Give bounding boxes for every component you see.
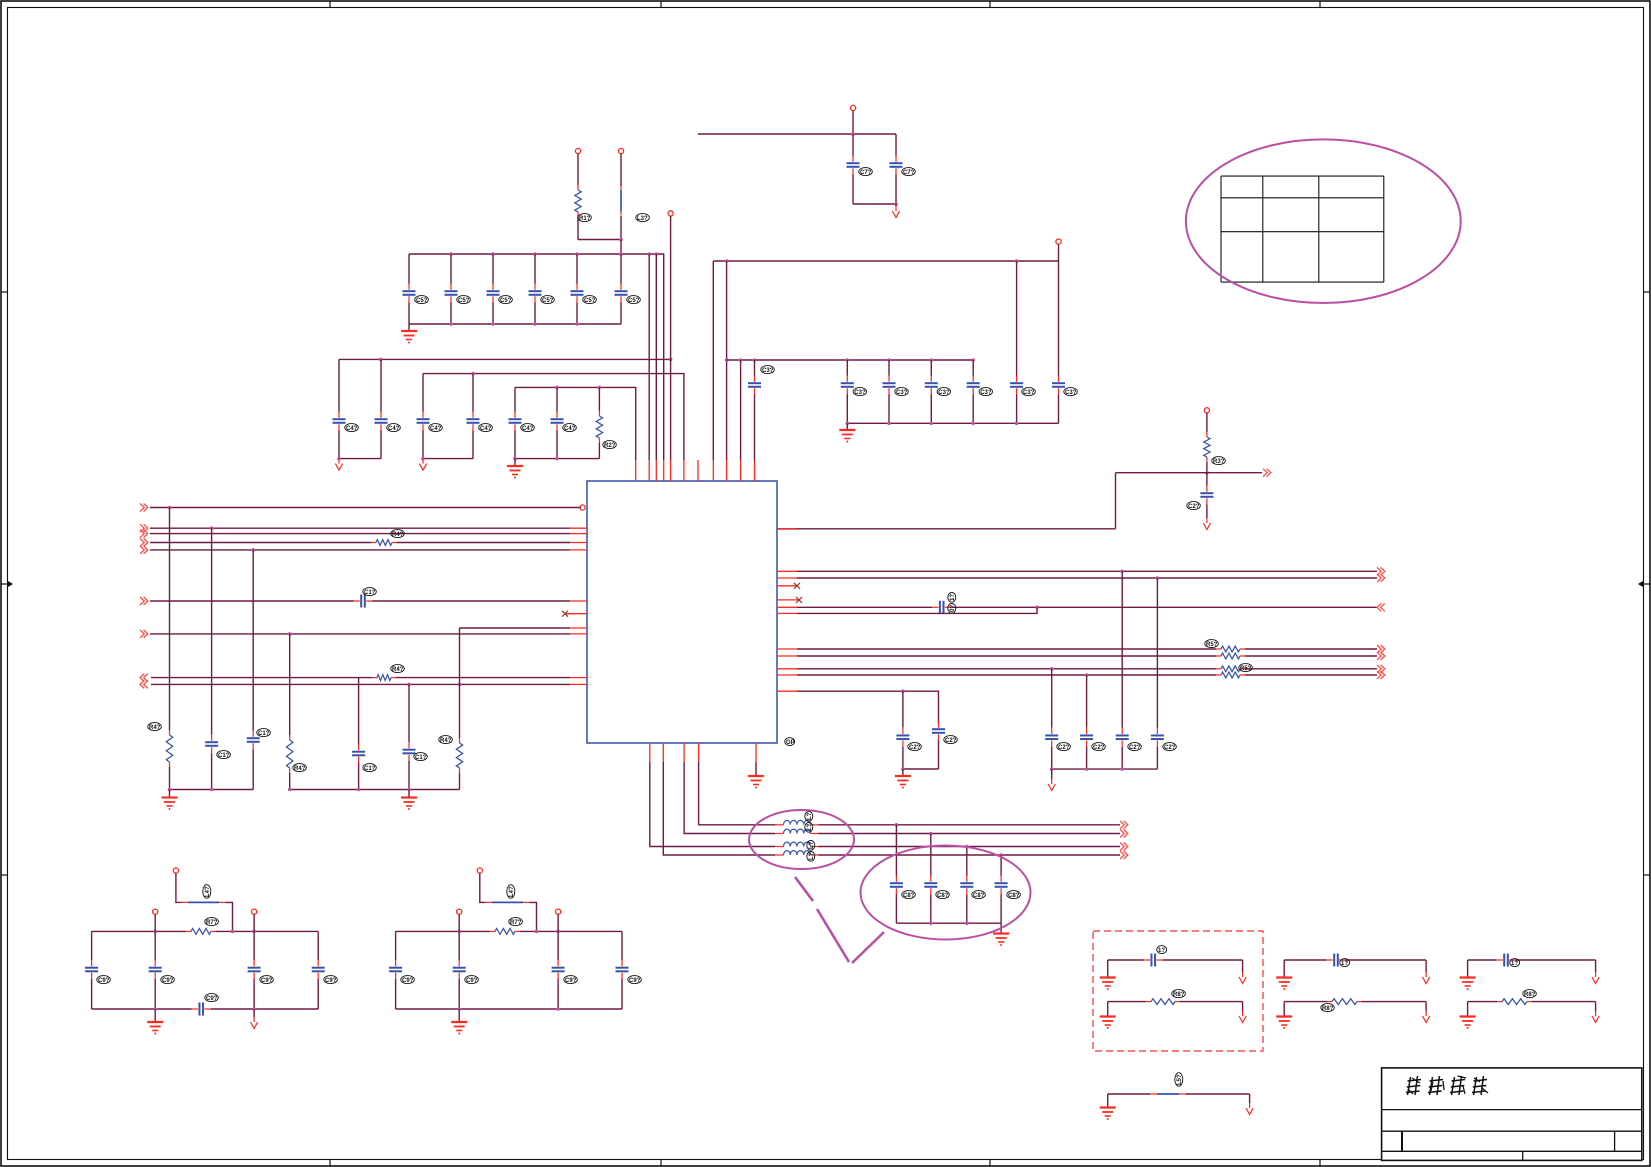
wire rail y472.7 <box>1116 472 1263 474</box>
label C14 <box>414 753 428 761</box>
label C22 <box>908 743 922 751</box>
label C102 <box>1510 959 1520 967</box>
capacitor C49 <box>333 412 346 431</box>
label C10 <box>363 588 377 596</box>
wire row 668.8a <box>797 668 1216 670</box>
ferrite bead FB4 <box>1150 1093 1186 1095</box>
svg-text:R2?: R2? <box>604 443 616 449</box>
resistor R20 <box>596 411 602 443</box>
svg-text:1?: 1? <box>950 594 956 601</box>
svg-text:C3?: C3? <box>896 390 908 396</box>
off-page arrow A-668.8 <box>1377 665 1385 673</box>
junction J-1037-607 <box>1035 606 1039 610</box>
wire lrc gnd stub2 <box>408 790 410 798</box>
wire b1 agnd stub <box>253 1009 255 1017</box>
IC left pin stubs <box>566 528 587 684</box>
label C61 <box>902 168 916 176</box>
resistor R65 <box>1216 672 1245 678</box>
wire 740 vertical <box>740 360 742 460</box>
wire g2 row1 gnd stub <box>1283 960 1285 978</box>
wire brow2 <box>684 762 775 834</box>
junctions row tap dots <box>1050 667 1089 677</box>
analog ground AG11 <box>1592 972 1599 984</box>
capacitor C80 <box>890 876 903 895</box>
label R80 <box>1172 990 1186 998</box>
capacitor C39 <box>883 376 896 395</box>
wire brow3 <box>650 762 775 847</box>
analog ground AG7 <box>1239 972 1246 984</box>
label C24 <box>1057 743 1071 751</box>
wire b2 pin3 lead b <box>557 979 559 1009</box>
resistor R82 <box>1497 999 1532 1005</box>
ground GND1 <box>401 331 417 344</box>
off-page arrow A-571 <box>1377 567 1385 575</box>
label C51 <box>457 296 471 304</box>
inductor L1 <box>775 820 819 824</box>
svg-text:C1?: C1? <box>415 755 427 761</box>
svg-text:R8?: R8? <box>1173 992 1185 998</box>
wire v902 <box>902 691 904 728</box>
junction J-1206-472 <box>1205 471 1209 475</box>
capacitor C37 <box>841 376 854 395</box>
ground GND13 <box>1276 978 1292 991</box>
wire e2v1 <box>895 825 897 876</box>
wire g1 row2 gnd stub <box>1107 1002 1109 1017</box>
ground GND9 <box>147 1022 163 1035</box>
label C101 <box>1340 959 1350 967</box>
wire rc bottom rail b <box>1052 768 1158 770</box>
wire g1 row2 agnd stub <box>1242 1002 1244 1011</box>
resistor R59 <box>1216 646 1245 652</box>
wire trb bottom rail <box>847 422 1058 424</box>
wire b1 fb corner <box>226 902 233 931</box>
junction J-169-507 <box>168 506 172 510</box>
inductor L2 <box>775 829 819 833</box>
leader line 1 <box>795 877 813 901</box>
pin P10 <box>477 868 482 873</box>
junctions railC <box>555 386 601 390</box>
wire trb gnd stub <box>846 423 848 430</box>
border centre arrow left <box>1 581 13 587</box>
wire bank2 cap557 bottom lead <box>556 431 558 459</box>
wire bt agnd stub <box>1249 1094 1251 1103</box>
label C27 <box>1163 743 1177 751</box>
label C100 <box>1157 946 1167 954</box>
wire row 607.3b <box>951 606 1377 608</box>
svg-text:R4?: R4? <box>294 766 306 772</box>
wire bank1 cap0 bottom lead <box>408 303 410 325</box>
junctions bank2 bottom <box>337 457 559 461</box>
svg-text:C1?: C1? <box>258 731 270 737</box>
label FB1 <box>636 214 650 222</box>
junctions b2 bottom dots <box>457 1007 559 1011</box>
ground GND14 <box>1276 1017 1292 1030</box>
wire brow2b <box>819 833 1121 835</box>
wire g3 row2 gnd stub <box>1467 1002 1469 1017</box>
wire rc bottom rail a <box>903 768 939 770</box>
wire v289b <box>289 773 291 790</box>
wire bank2 cap423 bottom lead <box>422 431 424 459</box>
wire b2 fb corner <box>530 902 537 931</box>
wire bank1 bottom rail <box>409 323 621 325</box>
wire row 656b <box>1245 655 1377 657</box>
svg-text:L?: L? <box>807 812 813 820</box>
svg-text:C8?: C8? <box>1008 893 1020 899</box>
wire e2v1b <box>895 895 897 924</box>
junction J-289-633 <box>288 632 292 636</box>
capacitor C27 <box>1151 728 1164 747</box>
svg-text:L3?: L3? <box>637 216 648 222</box>
capacitor C97 <box>389 960 402 979</box>
capacitor C91 <box>248 960 261 979</box>
no-connect X1 <box>562 611 568 617</box>
capacitor C23 <box>932 722 945 741</box>
wire b1 capL lead b <box>91 979 93 1009</box>
svg-text:C3?: C3? <box>762 368 774 374</box>
label C50 <box>415 296 429 304</box>
capacitor C37 <box>1052 376 1065 395</box>
wire e2 bottom rail <box>896 922 1001 924</box>
svg-text:R5?: R5? <box>1206 642 1218 648</box>
junction J-253-549 <box>251 548 255 552</box>
wire e2v3 <box>966 847 968 876</box>
wire v409 <box>408 684 410 742</box>
wire bank2 cap515 bottom lead <box>514 431 516 459</box>
wire g1 row1 b <box>1163 959 1243 961</box>
label U1 GP <box>785 738 795 746</box>
wire b2 main row <box>396 930 490 932</box>
wire v1157b <box>1156 747 1158 769</box>
label C31 <box>937 388 951 396</box>
pin P11 <box>457 909 462 914</box>
wire b2 capL lead <box>395 931 397 960</box>
label R30 <box>1212 457 1226 465</box>
wire ic gnd lead <box>755 762 757 776</box>
wire v459b <box>459 773 461 790</box>
svg-text:C3?: C3? <box>980 390 992 396</box>
label C81 <box>936 891 950 899</box>
capacitor C47 <box>551 412 564 431</box>
wire trb cap889 top lead <box>888 360 890 376</box>
wire row 628 corner <box>460 627 571 629</box>
label C21 <box>1187 502 1201 510</box>
wire b2 bottom row <box>396 1008 622 1010</box>
label R44 <box>439 736 453 744</box>
wire C61 top lead <box>895 134 897 156</box>
wire bank2 cap381 bottom lead <box>380 431 382 459</box>
svg-text:C4?: C4? <box>522 426 534 432</box>
wire bank1 cap1 top lead <box>450 254 452 284</box>
IC bottom pin stubs <box>650 743 756 762</box>
svg-text:C2?: C2? <box>1188 504 1200 510</box>
wire bus 656 vertical <box>655 254 657 460</box>
wire row 656a <box>797 655 1216 657</box>
wire v409b <box>408 761 410 790</box>
capacitor C93 <box>312 960 325 979</box>
capacitor C54 <box>571 284 584 303</box>
wire P2 lead <box>577 154 579 185</box>
wire 459 vertical <box>459 628 461 684</box>
wire b1 pin2 lead b <box>154 979 156 1009</box>
junction J-670-359 <box>669 358 673 362</box>
wire bank1 cap1 bottom lead <box>450 303 452 325</box>
wire g1 row1 a <box>1108 959 1144 961</box>
wire row 675b <box>1245 674 1377 676</box>
label R41 <box>391 665 405 673</box>
wire v211 <box>211 528 213 734</box>
wire row 542.5b <box>397 542 570 544</box>
off-page arrow A-675 <box>1377 671 1385 679</box>
wire trb cap889 bottom lead <box>888 395 890 424</box>
junctions b1 bottom dots <box>153 1007 256 1011</box>
wire bank2 cap339 top lead <box>338 359 340 411</box>
wire 621 down to bank1 <box>620 240 622 255</box>
label C13 <box>363 764 377 772</box>
wire bank2 res lead2 <box>598 443 600 459</box>
svg-text:L4?: L4? <box>509 886 515 897</box>
label R82 <box>1523 990 1537 998</box>
svg-text:C2?: C2? <box>1058 745 1070 751</box>
svg-text:C9?: C9? <box>466 978 478 984</box>
junctions bank1 bottom <box>449 322 579 326</box>
off-page arrow A-677 <box>140 674 148 682</box>
label C43 <box>479 424 493 432</box>
wire bank1 cap0 top lead <box>408 254 410 284</box>
capacitor C22 <box>896 728 909 747</box>
wire bank2 cap339 bottom lead <box>338 431 340 459</box>
wire row 528.2 <box>150 527 570 529</box>
wire v1051b <box>1051 747 1053 769</box>
wire P1 to node <box>852 111 854 134</box>
off-page arrow A-684 <box>140 680 148 688</box>
svg-text:C2?: C2? <box>1093 745 1105 751</box>
label C54 <box>583 296 597 304</box>
capacitor C81 <box>924 876 937 895</box>
label C36 <box>1022 388 1036 396</box>
label C45 <box>521 424 535 432</box>
capacitor C12 <box>247 731 260 750</box>
leader line 3 <box>852 932 884 963</box>
wire g3 row1 a <box>1468 959 1497 961</box>
wire bank2 railB <box>423 374 684 460</box>
wire C61 bottom lead <box>895 175 897 205</box>
label R81 <box>1321 1004 1335 1012</box>
label C37 <box>1064 388 1078 396</box>
svg-text:C9?: C9? <box>261 978 273 984</box>
off-page arrow A-472 <box>1263 469 1271 477</box>
capacitor C25 <box>1080 728 1093 747</box>
capacitor C60 <box>847 156 860 175</box>
wire row 633.9 <box>150 633 570 635</box>
analog ground AG10 <box>1423 1011 1430 1023</box>
label L3L4b <box>807 851 815 861</box>
label R43 <box>293 764 307 772</box>
capacitor C52 <box>487 284 500 303</box>
ground GND12 <box>1100 1017 1116 1030</box>
wire e2v3b <box>966 895 968 924</box>
leader line 2 <box>817 909 849 962</box>
label C94 <box>205 994 219 1002</box>
ferrite bead FB2 <box>181 901 226 903</box>
resistor R71 <box>490 929 520 935</box>
pin P5 <box>1204 408 1209 413</box>
pin P1 <box>850 105 855 110</box>
pin P2 <box>575 148 580 153</box>
off-page arrow A-824 <box>1120 821 1128 829</box>
wire trb cap973.2 top lead <box>972 360 974 376</box>
wire v1157 <box>1156 578 1158 728</box>
capacitor C43 <box>467 412 480 431</box>
junctions rail360 <box>739 358 975 362</box>
wire 754 lead2 <box>754 395 756 461</box>
off-page arrow A-578 <box>1377 574 1385 582</box>
resistor R68 <box>1216 666 1245 672</box>
wire bank2 res lead <box>598 387 600 411</box>
wire v1122 <box>1121 571 1123 727</box>
label R70 <box>205 918 219 926</box>
junctions trb bottom <box>846 422 1019 426</box>
wire bank2 railC <box>515 387 636 460</box>
label C33 <box>979 388 993 396</box>
IC right pin stubs <box>777 529 799 691</box>
wire bank1 cap4 bottom lead <box>576 303 578 325</box>
no-connect X3 <box>796 597 802 603</box>
ground GND17 <box>1100 1108 1116 1121</box>
junctions b1 row dots <box>153 930 256 934</box>
wire v358b <box>358 763 360 790</box>
wire pin13 vertical <box>670 216 672 460</box>
capacitor C10 <box>354 595 373 608</box>
wire bt gnd stub <box>1107 1094 1109 1108</box>
capacitor C90 <box>149 960 162 979</box>
svg-text:R1?: R1? <box>579 216 591 222</box>
wire g2 row2 b <box>1362 1001 1426 1003</box>
svg-text:C2?: C2? <box>1129 745 1141 751</box>
svg-text:C2?: C2? <box>1164 745 1176 751</box>
wire g1 row1 agnd stub <box>1242 960 1244 972</box>
label R50 <box>1205 640 1219 648</box>
wire g2 row2 gnd stub <box>1283 1002 1285 1017</box>
label C37 <box>853 388 867 396</box>
wire R30 to junction <box>1206 462 1208 473</box>
svg-text:C5?: C5? <box>628 298 640 304</box>
wire g1 row1 gnd stub <box>1107 960 1109 978</box>
capacitor C96 <box>552 960 565 979</box>
junctions e2 dots <box>929 921 969 925</box>
svg-text:C9?: C9? <box>565 978 577 984</box>
ground GND10 <box>451 1022 467 1035</box>
wire b2 pin3 lead <box>557 914 559 960</box>
capacitor C26 <box>1116 728 1129 747</box>
wire b1 capR lead b <box>317 979 319 1009</box>
wire lrc bottom rail 1 <box>170 789 254 791</box>
label C20b <box>948 603 956 613</box>
svg-text:C3?: C3? <box>854 390 866 396</box>
wire v938b <box>938 741 940 770</box>
capacitor C95 <box>453 960 466 979</box>
svg-text:L?: L? <box>809 841 815 849</box>
wire b1 capL lead <box>91 931 93 960</box>
ground GND16 <box>1460 1017 1476 1030</box>
off-page arrow A-507 <box>140 504 148 512</box>
wire g2 row1 a <box>1284 959 1326 961</box>
capacitor C100 <box>1144 954 1163 967</box>
label FB4 <box>1175 1073 1183 1087</box>
wire g2 row2 agnd stub <box>1425 1002 1427 1011</box>
border centre arrow right <box>1638 581 1650 587</box>
wire row 684.4 <box>151 683 570 685</box>
wire b2 gnd stub <box>458 1009 460 1022</box>
svg-text:C5?: C5? <box>416 298 428 304</box>
label C98 <box>628 976 642 984</box>
capacitor C50 <box>403 284 416 303</box>
capacitor C61 <box>890 156 903 175</box>
wire top rail y134 <box>698 133 896 135</box>
off-page arrow A-833 <box>1120 830 1128 838</box>
wire v1086b <box>1086 747 1088 769</box>
svg-text:R4?: R4? <box>392 532 404 538</box>
off-page arrow A-656 <box>1377 652 1385 660</box>
wire v1122b <box>1121 747 1123 769</box>
label C96 <box>564 976 578 984</box>
wire b1 gnd stub <box>154 1009 156 1022</box>
svg-text:R7?: R7? <box>206 920 218 926</box>
junction J-1157-578 <box>1156 576 1160 580</box>
resistor R30 <box>1204 432 1210 462</box>
wire 754 lead <box>754 360 756 376</box>
resistor R43 <box>287 735 293 773</box>
wire e2v2b <box>930 895 932 924</box>
ground GND15 <box>1460 978 1476 991</box>
svg-text:R8?: R8? <box>1524 992 1536 998</box>
junction J-902-691 <box>901 689 905 693</box>
capacitor C45 <box>509 412 522 431</box>
off-page arrow A-846 <box>1120 843 1128 851</box>
label C11 <box>217 751 231 759</box>
analog ground AG3 <box>419 459 426 471</box>
label C55 <box>627 296 641 304</box>
capacitor C20 <box>932 601 951 614</box>
wire rc gnd stub <box>902 769 904 776</box>
wire 1016 lead2 <box>1016 395 1018 424</box>
wire v253 <box>252 550 254 731</box>
wire bt row b <box>1186 1093 1250 1095</box>
resistor R10 <box>575 185 581 217</box>
junction J-380-359 <box>379 358 383 362</box>
label C39 <box>895 388 909 396</box>
capacitor C11 <box>205 735 218 754</box>
junction J-473-373 <box>471 372 475 376</box>
capacitor C82 <box>960 876 973 895</box>
pin P7 <box>173 868 178 873</box>
wire C60 top lead <box>852 134 854 156</box>
wire 1058 lead2 <box>1058 395 1060 424</box>
svg-text:C8?: C8? <box>937 893 949 899</box>
svg-text:C9?: C9? <box>325 978 337 984</box>
wire row 578 <box>797 577 1377 579</box>
wire FB1 down <box>620 216 622 240</box>
wire b1 pin3 lead <box>253 914 255 960</box>
ground GND3 <box>839 430 855 443</box>
label L1L2 <box>805 811 813 821</box>
no-connect X2 <box>794 583 800 589</box>
junctions rcb dots <box>1050 767 1124 771</box>
wire bank1 cap2 bottom lead <box>492 303 494 325</box>
svg-text:C9?: C9? <box>98 978 110 984</box>
wire b2 capR lead <box>621 931 623 960</box>
label R42 <box>148 723 162 731</box>
wire bank1 cap5 bottom lead <box>620 303 622 325</box>
